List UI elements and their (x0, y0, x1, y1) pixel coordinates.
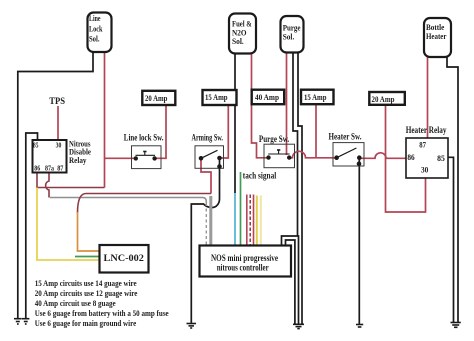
svg-text:40 Amp circuit use 8 guage: 40 Amp circuit use 8 guage (35, 299, 116, 308)
svg-text:15 Amp: 15 Amp (205, 92, 228, 102)
svg-text:NOS mini progressive: NOS mini progressive (211, 254, 278, 264)
svg-text:40 Amp: 40 Amp (255, 92, 279, 102)
svg-text:15 Amp: 15 Amp (304, 92, 327, 102)
svg-text:Disable: Disable (69, 148, 91, 157)
svg-text:tach signal: tach signal (243, 171, 277, 181)
svg-text:86: 86 (407, 153, 414, 162)
svg-text:Use 6 guage for main ground wi: Use 6 guage for main ground wire (35, 319, 137, 328)
svg-text:nitrous controller: nitrous controller (217, 264, 270, 274)
svg-text:Heater Relay: Heater Relay (406, 125, 447, 135)
svg-text:30: 30 (421, 166, 428, 175)
svg-text:86: 86 (34, 164, 40, 173)
svg-text:Sol.: Sol. (232, 36, 244, 46)
svg-text:20 Amp circuits use 12 guage w: 20 Amp circuits use 12 guage wire (35, 289, 138, 298)
svg-text:87: 87 (419, 141, 426, 150)
svg-text:Arming Sw.: Arming Sw. (192, 134, 224, 144)
svg-text:Heater Sw.: Heater Sw. (329, 133, 362, 143)
svg-text:85: 85 (33, 140, 39, 149)
svg-text:Relay: Relay (69, 156, 87, 165)
svg-text:87: 87 (57, 164, 63, 173)
svg-text:20 Amp: 20 Amp (372, 94, 395, 104)
svg-text:LNC-002: LNC-002 (104, 253, 145, 263)
svg-text:TPS: TPS (49, 96, 65, 106)
svg-text:Purge Sw.: Purge Sw. (259, 135, 289, 145)
svg-text:85: 85 (437, 154, 445, 163)
svg-text:Use 6 guage from battery with: Use 6 guage from battery with a 50 amp f… (35, 309, 169, 318)
svg-text:Lock: Lock (89, 24, 103, 33)
svg-text:15 Amp circuits use 14 guage w: 15 Amp circuits use 14 guage wire (35, 279, 137, 288)
svg-text:Sol.: Sol. (283, 32, 295, 42)
svg-text:20 Amp: 20 Amp (145, 93, 168, 103)
svg-text:30: 30 (56, 140, 62, 149)
svg-text:Sol.: Sol. (89, 35, 100, 44)
svg-text:Heater: Heater (426, 31, 447, 41)
svg-text:Line lock Sw.: Line lock Sw. (124, 134, 164, 144)
svg-text:Line: Line (89, 14, 101, 23)
svg-text:87a: 87a (45, 164, 54, 173)
